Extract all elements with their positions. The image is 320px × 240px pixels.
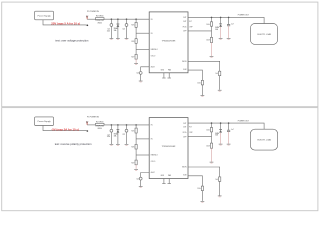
wire: R27 to ground (red) xyxy=(135,59,137,63)
resistor R28 xyxy=(206,128,212,132)
ground for C26 xyxy=(227,144,231,145)
ground output divider xyxy=(210,56,214,57)
junction on input rail xyxy=(126,18,128,20)
ground for R31 xyxy=(218,196,222,197)
ground for C26 xyxy=(227,38,231,39)
svg-text:OUT: OUT xyxy=(183,21,186,23)
svg-text:dVdT: dVdT xyxy=(151,172,155,174)
ground for divider xyxy=(134,169,138,170)
svg-text:25V (max 5 A for 10 s): 25V (max 5 A for 10 s) xyxy=(51,22,80,26)
ground for C25 xyxy=(139,187,143,188)
capacitor C22 xyxy=(122,19,128,38)
svg-text:OUT: OUT xyxy=(183,123,186,125)
capacitor C26 xyxy=(227,17,234,38)
ground for D22 xyxy=(219,144,223,145)
shunt resistor R24 xyxy=(95,121,104,130)
svg-text:ELECTR. LOAD: ELECTR. LOAD xyxy=(257,139,271,142)
svg-text:FLT: FLT xyxy=(189,127,192,129)
electronic load box xyxy=(250,129,277,150)
wire: EN/UVLO tap to IC xyxy=(136,32,149,34)
svg-text:FLTb: FLTb xyxy=(183,132,187,134)
capacitor C22 xyxy=(122,125,128,144)
connector J5 symbol xyxy=(86,16,88,20)
capacitor C21 xyxy=(107,125,113,144)
svg-text:FLTb: FLTb xyxy=(183,27,187,29)
resistor R26 xyxy=(132,144,138,149)
wire: input rail left xyxy=(87,124,95,126)
svg-text:16k9: 16k9 xyxy=(206,40,209,42)
ground for R30 xyxy=(201,96,205,97)
capacitor C21 xyxy=(107,19,113,38)
ground for R30 xyxy=(201,201,205,202)
svg-text:4u7: 4u7 xyxy=(231,129,234,131)
TVS diode D22 xyxy=(215,122,222,143)
wire: IMON pin xyxy=(188,167,220,177)
svg-text:EN/UVLO: EN/UVLO xyxy=(151,155,159,157)
svg-text:OVP: OVP xyxy=(189,132,192,134)
wire: ILIM pin xyxy=(188,176,202,186)
top panel frame xyxy=(2,2,318,107)
svg-text:16k9: 16k9 xyxy=(206,145,209,147)
svg-text:POWER OUT: POWER OUT xyxy=(238,120,250,122)
svg-text:test: over voltage protection: test: over voltage protection xyxy=(55,38,89,42)
svg-text:OUT: OUT xyxy=(183,127,186,129)
svg-text:-5V (max 5A for 10 s): -5V (max 5A for 10 s) xyxy=(51,127,79,131)
ground output divider xyxy=(210,162,214,163)
wire: R27 to ground (red) xyxy=(135,165,137,169)
svg-text:OVP: OVP xyxy=(183,31,186,33)
svg-text:R25: R25 xyxy=(132,130,135,132)
wire: output rail POWER OUT xyxy=(188,123,264,129)
ground for D21 xyxy=(116,144,120,145)
junction on input rail xyxy=(126,124,128,126)
wire: divider column xyxy=(135,19,137,59)
ground for C25 xyxy=(139,81,143,82)
IC U21 TPS2662 xyxy=(149,118,188,179)
svg-text:OVP: OVP xyxy=(189,27,192,29)
wire: output divider column xyxy=(211,17,213,37)
annotation arrowhead dot xyxy=(87,25,89,27)
svg-text:100k: 100k xyxy=(206,24,210,26)
svg-text:0R010: 0R010 xyxy=(97,22,102,24)
ground for C21 xyxy=(110,144,114,145)
svg-text:R27: R27 xyxy=(132,57,135,59)
svg-text:P5 POWER IN: P5 POWER IN xyxy=(87,117,99,119)
capacitor C25 xyxy=(136,177,142,186)
capacitor C26 xyxy=(227,122,234,143)
IC ground stub 1 xyxy=(162,73,165,78)
svg-text:TPS26620RGER: TPS26620RGER xyxy=(162,146,176,148)
svg-text:TPS26620RGER: TPS26620RGER xyxy=(162,40,176,42)
capacitor C25 xyxy=(136,72,142,81)
svg-text:OUT: OUT xyxy=(183,17,186,19)
svg-text:R25: R25 xyxy=(132,25,135,27)
annotation arrowhead dot xyxy=(87,130,89,132)
svg-text:Power Supply: Power Supply xyxy=(38,15,52,18)
wire: dVdt pin xyxy=(141,67,150,72)
wire from power supply to annotation arrow xyxy=(43,20,86,25)
svg-text:EN/UVLO: EN/UVLO xyxy=(151,49,159,51)
TVS diode D21 xyxy=(114,19,120,38)
svg-text:C22: C22 xyxy=(122,28,125,30)
svg-text:test: reverse polarity protect: test: reverse polarity protection xyxy=(55,142,92,146)
electronic load box xyxy=(250,24,277,45)
ground for D22 xyxy=(219,38,223,39)
svg-text:C21: C21 xyxy=(107,29,110,31)
resistor R30 xyxy=(197,186,203,191)
resistor R28 xyxy=(206,22,212,26)
svg-text:R24 0R010: R24 0R010 xyxy=(96,121,104,123)
IC ground stub 2 xyxy=(168,179,171,184)
svg-text:C25: C25 xyxy=(136,73,139,75)
IC ground stub 2 xyxy=(168,73,171,78)
wire: R30 to ground xyxy=(201,85,203,95)
wire: input rail left xyxy=(87,18,95,20)
resistor R25 xyxy=(132,128,138,133)
wire from power supply to annotation arrow xyxy=(43,126,86,131)
ground for D21 xyxy=(116,39,120,40)
resistor R31 xyxy=(215,177,220,182)
wire: dVdt pin xyxy=(141,173,150,178)
svg-text:150k: 150k xyxy=(197,82,201,84)
wire: OVP pin to output divider xyxy=(188,30,212,32)
junction on input rail xyxy=(111,124,113,126)
svg-text:dVdT: dVdT xyxy=(151,66,155,68)
bottom panel frame xyxy=(2,108,318,211)
power supply box PS xyxy=(35,11,54,20)
wire: OVP pin to output divider xyxy=(188,136,212,138)
wire: R31 to ground xyxy=(219,181,221,195)
svg-text:OVP: OVP xyxy=(183,136,186,138)
wire: output divider column xyxy=(211,123,213,143)
IC U21 TPS2662 xyxy=(149,12,188,73)
svg-text:ELECTR. LOAD: ELECTR. LOAD xyxy=(257,33,271,36)
wire: R30 to ground xyxy=(201,191,203,201)
wire: output rail POWER OUT xyxy=(188,17,264,23)
resistor R27 xyxy=(132,54,138,59)
wire: input rail to IC xyxy=(104,18,149,20)
junction on input rail xyxy=(111,18,113,20)
svg-text:R27: R27 xyxy=(132,162,135,164)
resistor R25 xyxy=(132,22,138,27)
ground for C22 xyxy=(125,144,129,145)
connector J5 symbol xyxy=(86,121,88,125)
ground for R31 xyxy=(218,90,222,91)
svg-text:150k: 150k xyxy=(197,188,201,190)
svg-text:4u7: 4u7 xyxy=(231,23,234,25)
power supply box PS xyxy=(35,117,54,126)
svg-text:CSS2H-2512: CSS2H-2512 xyxy=(95,126,104,128)
svg-text:0R010: 0R010 xyxy=(97,128,102,130)
svg-text:100n: 100n xyxy=(107,136,111,138)
wire: IMON pin xyxy=(188,61,220,71)
svg-text:FLT: FLT xyxy=(189,21,192,23)
junction output rail 1 xyxy=(211,122,213,124)
IC ground stub 1 xyxy=(162,179,165,184)
resistor R31 xyxy=(215,71,220,76)
wire: OVLO tap to IC xyxy=(136,154,149,156)
svg-text:100n: 100n xyxy=(107,31,111,33)
svg-text:R26: R26 xyxy=(132,41,135,43)
wire: R29 to ground (red) xyxy=(211,148,213,162)
wire: ILIM pin xyxy=(188,70,202,80)
wire: OVLO tap to IC xyxy=(136,48,149,50)
svg-text:1k0: 1k0 xyxy=(215,179,218,181)
svg-text:R26: R26 xyxy=(132,147,135,149)
wire: divider column xyxy=(135,125,137,165)
resistor R29 xyxy=(206,143,212,148)
ground for divider xyxy=(134,64,138,65)
svg-text:OVLO: OVLO xyxy=(151,161,156,163)
wire: input rail to IC xyxy=(104,124,149,126)
shunt resistor R24 xyxy=(95,16,104,25)
junction output rail 1 xyxy=(211,17,213,19)
svg-text:CSS2H-2512: CSS2H-2512 xyxy=(95,20,104,22)
TVS diode D22 xyxy=(215,17,222,38)
junction on input rail xyxy=(117,18,119,20)
wire: R31 to ground xyxy=(219,76,221,90)
svg-text:C25: C25 xyxy=(136,178,139,180)
svg-text:C22: C22 xyxy=(122,134,125,136)
TVS diode D21 xyxy=(114,125,120,144)
svg-text:R24 0R010: R24 0R010 xyxy=(96,16,104,18)
svg-text:POWER OUT: POWER OUT xyxy=(238,15,250,17)
resistor R27 xyxy=(132,160,138,165)
resistor R29 xyxy=(206,37,212,42)
junction on input rail xyxy=(117,124,119,126)
svg-text:C21: C21 xyxy=(107,134,110,136)
ground for C22 xyxy=(125,39,129,40)
junction on input rail xyxy=(135,18,137,20)
svg-text:OVLO: OVLO xyxy=(151,55,156,57)
ground for C21 xyxy=(110,39,114,40)
svg-text:100k: 100k xyxy=(206,130,210,132)
resistor R26 xyxy=(132,39,138,44)
junction on input rail xyxy=(135,124,137,126)
wire: R29 to ground (red) xyxy=(211,43,213,57)
resistor R30 xyxy=(197,80,203,85)
svg-text:Power Supply: Power Supply xyxy=(38,120,52,123)
wire: EN/UVLO tap to IC xyxy=(136,138,149,140)
svg-text:1k0: 1k0 xyxy=(215,73,218,75)
svg-text:P5 POWER IN: P5 POWER IN xyxy=(87,11,99,13)
